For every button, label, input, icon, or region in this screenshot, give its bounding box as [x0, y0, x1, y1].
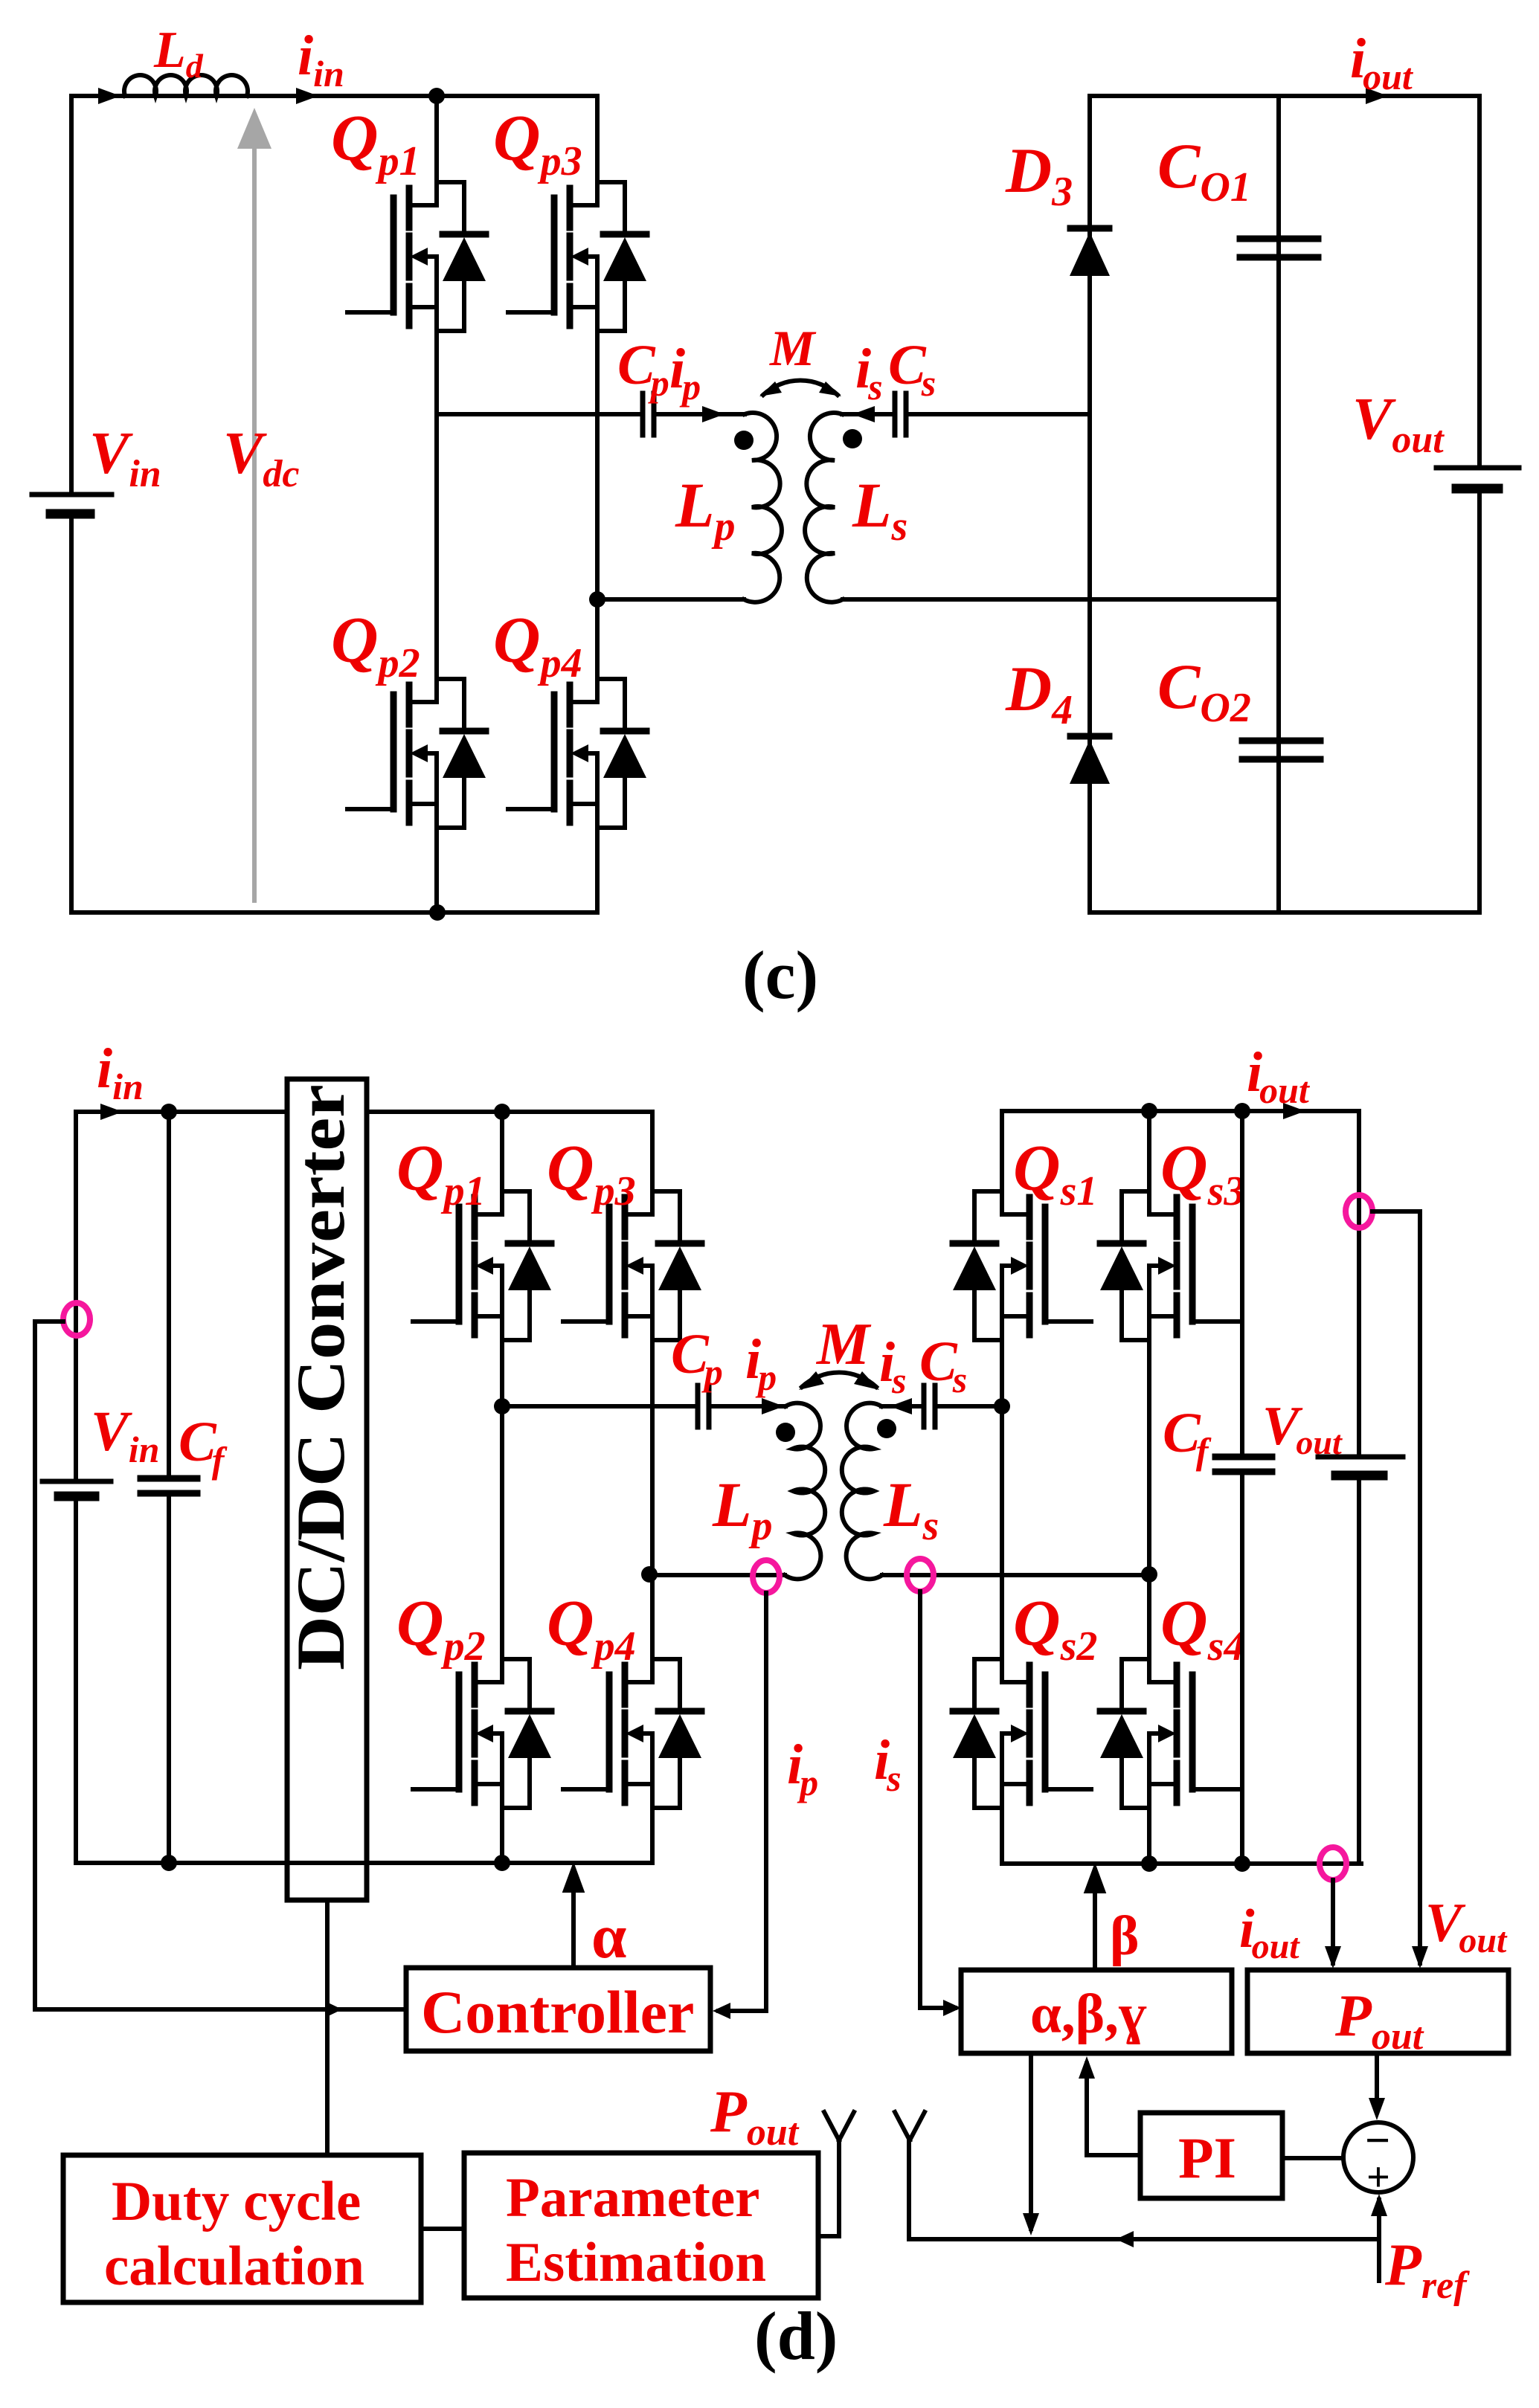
wire: Qp2 drain from node A [434, 414, 439, 679]
svg-text:iout: iout [1239, 1899, 1300, 1966]
battery Vout [1318, 1457, 1403, 1475]
svg-text:is: is [855, 338, 883, 408]
svg-text:Vout: Vout [1425, 1893, 1508, 1960]
wire: Vout sense tap right then down [1372, 1211, 1420, 1963]
arrowhead right of M arc [819, 382, 841, 396]
svg-text:is: is [879, 1331, 907, 1401]
wire: Qp3 source down to node B [650, 1340, 655, 1574]
battery Vin [32, 495, 112, 514]
wire: top rail from Vin to bridge [71, 94, 597, 98]
arrow: i_in on top rail [296, 88, 318, 104]
arrow: into summing junction top [1369, 2098, 1385, 2120]
arrow: leftward on Pref line [1116, 2231, 1134, 2247]
wire: ip sense down from probe [719, 1593, 766, 2011]
wire: Cf leg lower [167, 1493, 171, 1863]
svg-text:Ld: Ld [153, 22, 204, 85]
transistor Qp3 [508, 182, 646, 331]
node: junction dot Qp3/Qp4 [589, 591, 605, 608]
arrowhead left of M arc [799, 1371, 824, 1390]
node: dot Qs3/Qs4 mid [1141, 1566, 1157, 1583]
arrow: i_out on secondary top rail [1283, 1103, 1305, 1119]
svg-text:calculation: calculation [104, 2235, 364, 2297]
wire: abg block down to feedback line [1029, 2053, 1033, 2229]
svg-text:ip: ip [787, 1733, 818, 1803]
svg-text:Qs3: Qs3 [1160, 1133, 1244, 1214]
svg-text:α,β,ɣ: α,β,ɣ [1030, 1983, 1147, 2045]
wire: Qp3 drain from rail corner [650, 1112, 655, 1191]
wire: secondary top rail [1002, 1109, 1359, 1113]
svg-text:(c): (c) [742, 937, 818, 1013]
svg-text:Cs: Cs [888, 334, 936, 404]
arrow: beta gate signal up to bridge [1087, 1869, 1103, 1970]
svg-text:M: M [769, 320, 817, 376]
wire: Ls bottom to Qs3/Qs4 node [882, 1573, 1149, 1577]
wire: Lp bottom to Qp3/Qp4 node [597, 597, 744, 602]
arrow: i_p into coil [762, 1398, 784, 1414]
wire: Qs3/Qs4 node to Qs4 [1147, 1574, 1151, 1659]
svg-text:CO1: CO1 [1157, 130, 1251, 210]
svg-text:is: is [874, 1729, 902, 1799]
svg-text:Pout: Pout [710, 2079, 800, 2154]
arrow: PI output into abg [1079, 2056, 1095, 2079]
capacitor Cp [698, 1385, 709, 1427]
svg-text:Duty cycle: Duty cycle [112, 2171, 361, 2232]
svg-text:Controller: Controller [421, 1978, 694, 2046]
wire: secondary bottom rail [1002, 1861, 1361, 1866]
PI block [1140, 2113, 1282, 2198]
transistor Qs2 [953, 1659, 1091, 1808]
svg-text:ip: ip [745, 1328, 777, 1398]
svg-text:Qp1: Qp1 [396, 1133, 486, 1214]
wire: Qs4 source to bottom rail [1147, 1808, 1151, 1864]
transistor Qs1 [953, 1191, 1091, 1340]
arrow: iout sense into Pout [1325, 1946, 1341, 1968]
svg-text:(d): (d) [754, 2298, 838, 2374]
wire: primary bottom rail [76, 1861, 652, 1865]
wire: left vertical to Vin battery [74, 1112, 78, 1481]
node: dot Cf2 top [1234, 1103, 1250, 1119]
node: dot top of Qp1 leg [494, 1104, 510, 1120]
svg-text:Vin: Vin [91, 1400, 159, 1470]
capacitor CO2 [1242, 741, 1320, 759]
wire: DC/DC to duty cycle box [325, 1900, 330, 2155]
wire: below Vout battery to bottom rail [1357, 1475, 1361, 1864]
svg-text:D3: D3 [1005, 135, 1073, 215]
inductor Ls coil [805, 413, 843, 602]
wire: Qp1 drain [500, 1112, 504, 1191]
svg-text:Cs: Cs [919, 1330, 967, 1400]
polarity dot Lp [776, 1423, 795, 1442]
wire: right edge top to Vout battery [1357, 1111, 1361, 1457]
node: dot Qp3/Qp4 mid [641, 1566, 658, 1583]
wire: Qp2 source to bottom rail [500, 1808, 504, 1863]
arrow: current into Ld [98, 88, 121, 104]
arrow: Vout sense into Pout [1412, 1946, 1428, 1968]
wire: Pout to summing junction [1375, 2053, 1379, 2112]
arrow: is sense into abg block [943, 2000, 961, 2016]
polarity dot Lp [734, 431, 754, 450]
wire: Qs3 drain [1147, 1111, 1151, 1191]
capacitor Cs [924, 1385, 935, 1427]
wire: iout sense down from probe [1331, 1880, 1335, 1963]
wire: PI output to abg block [1087, 2064, 1140, 2155]
wire: Ls bottom to CO1/CO2 node [843, 597, 1279, 602]
parameter estimation block [464, 2153, 818, 2298]
svg-text:α: α [591, 1902, 626, 1971]
wire: Qp3 drain from top rail corner [595, 96, 600, 182]
svg-text:Qp4: Qp4 [493, 605, 582, 686]
svg-text:iout: iout [1350, 28, 1414, 97]
wire: Qs1 source to mid node [1000, 1340, 1004, 1406]
svg-text:PI: PI [1178, 2125, 1236, 2190]
transistor Qs4 [1100, 1659, 1238, 1808]
wire: Cp to Lp coil [654, 412, 745, 416]
transistor Qp2 [347, 679, 486, 828]
summing junction circle [1343, 2122, 1413, 2192]
polarity dot Ls [877, 1419, 896, 1438]
svg-text:Ls: Ls [852, 469, 907, 550]
svg-text:Vout: Vout [1352, 387, 1445, 461]
probe circle on output voltage leg [1346, 1195, 1372, 1228]
wire: right edge from top rail to Vout battery [1477, 96, 1482, 468]
transistor Qs3 [1100, 1191, 1238, 1340]
node: dot Qs3 top [1141, 1103, 1157, 1119]
wire: D3/D4 leg vertical [1087, 96, 1092, 912]
wire: primary top rail [76, 1110, 652, 1114]
wire: Cf leg upper [167, 1112, 171, 1478]
wire: Qp1 source to node A [500, 1340, 504, 1406]
wire: CO leg vertical [1276, 96, 1281, 912]
wire: bottom rail right section [1090, 910, 1479, 915]
wire: below Vout battery to bottom rail [1477, 489, 1482, 912]
inductor Lp coil [785, 1403, 825, 1580]
svg-text:Qp3: Qp3 [547, 1133, 636, 1214]
wire: PI to summing junction [1282, 2156, 1343, 2160]
transistor Qp1 [347, 182, 486, 331]
arrow: i_p into coil [702, 406, 724, 422]
node: dot Qs1/Qs2 mid [994, 1398, 1010, 1414]
capacitor Cs [895, 393, 906, 435]
wire: Qp1 drain from top rail [434, 96, 439, 182]
svg-text:iout: iout [1247, 1041, 1311, 1111]
svg-text:D4: D4 [1005, 653, 1073, 733]
svg-text:Qs2: Qs2 [1013, 1588, 1097, 1670]
wire: duty cycle to parameter estimation [421, 2227, 464, 2231]
wire: Qs2 source to bottom rail [1000, 1808, 1004, 1864]
wire: Ls top to Cs [842, 412, 893, 416]
arrow: abg down onto feedback line [1023, 2213, 1039, 2235]
capacitor Cf secondary [1215, 1457, 1272, 1472]
node: dot Cf top [161, 1104, 177, 1120]
battery Vout [1436, 468, 1519, 489]
battery Vin [42, 1481, 111, 1496]
node: dot Qp2 bottom [494, 1855, 510, 1871]
arrow: i_s into Ls coil [852, 406, 875, 422]
node: dot Qs4 bottom [1141, 1855, 1157, 1872]
svg-text:Qs4: Qs4 [1160, 1588, 1244, 1670]
wire: Cs to Qs1/Qs2 node [935, 1404, 1002, 1409]
DC/DC converter block [287, 1079, 367, 1900]
transistor Qp2 [413, 1659, 551, 1808]
wire: Qs1/Qs2 leg through to Qs2 [1000, 1406, 1004, 1659]
wire: Qp2 source to bottom rail [434, 828, 439, 912]
svg-text:Ls: Ls [883, 1469, 939, 1549]
svg-text:DC/DC Converter: DC/DC Converter [283, 1084, 359, 1670]
wire: node B to Qp4 [650, 1574, 655, 1659]
polarity dot Ls [843, 429, 862, 448]
svg-text:Vout: Vout [1262, 1396, 1343, 1461]
svg-text:Lp: Lp [675, 469, 736, 550]
wire: Qp3 source to node B [595, 331, 600, 599]
wire: Cp to Lp coil [709, 1404, 785, 1409]
arrow: gray Vdc sense arrow [237, 108, 272, 901]
wire: Vin sense tap to left [35, 1321, 63, 2009]
wire: Ls top to Cs [881, 1404, 922, 1409]
wire: below battery to bottom rail [74, 1496, 78, 1863]
svg-text:Lp: Lp [712, 1469, 773, 1549]
wire: Qs1 drain [1000, 1111, 1004, 1191]
transistor Qp4 [508, 679, 646, 828]
mutual coupling arc M [802, 1373, 876, 1387]
wire: Cf2 leg lower [1240, 1472, 1244, 1864]
svg-text:Cp: Cp [671, 1323, 723, 1393]
diode D3 [1070, 228, 1110, 276]
wire: Qp4 source to bottom rail [595, 828, 600, 912]
wire: Qp2 drain from node A [500, 1406, 504, 1659]
svg-text:Cf: Cf [1163, 1402, 1212, 1472]
Pout block [1247, 1970, 1509, 2053]
wire: node A to Cp [502, 1404, 696, 1409]
arrow: i_out on top rail [1366, 88, 1388, 104]
wire: node A horizontal to Cp [437, 412, 641, 416]
transistor Qp1 [413, 1191, 551, 1340]
arrow: i_in on primary top rail [100, 1104, 123, 1120]
wire: Pref up into summing junction [1377, 2200, 1381, 2281]
probe circle on output rail [1320, 1847, 1346, 1880]
antenna right [895, 2112, 925, 2140]
wire: Qs3 source to mid node [1147, 1340, 1151, 1574]
arrow: i_s into Ls [890, 1398, 912, 1414]
capacitor Cf primary [141, 1478, 197, 1493]
svg-text:Qp1: Qp1 [331, 103, 420, 184]
arrowhead right of M arc [854, 1371, 879, 1390]
svg-text:Cp: Cp [617, 334, 669, 404]
svg-text:Qp4: Qp4 [547, 1588, 636, 1670]
node: junction dot bottom of Qp2 leg [429, 904, 446, 921]
svg-text:Estimation: Estimation [506, 2232, 766, 2293]
wire: Vin sense to controller [35, 2007, 406, 2012]
svg-text:+: + [1366, 2154, 1390, 2201]
arrow: Pref into summing junction [1371, 2194, 1387, 2216]
probe circle on Lp lead [753, 1560, 780, 1593]
capacitor CO1 [1240, 239, 1318, 257]
svg-text:Vdc: Vdc [223, 421, 299, 495]
svg-text:Qs1: Qs1 [1013, 1133, 1097, 1214]
arrow: alpha gate signal up to bridge [565, 1868, 582, 1968]
node: dot Cf bottom [161, 1855, 177, 1871]
svg-text:iin: iin [97, 1037, 144, 1107]
svg-text:Cf: Cf [179, 1411, 228, 1481]
wire: Pref feedback line to antenna [909, 2141, 1378, 2239]
probe circle on Ls lead [907, 1559, 934, 1591]
wire: top rail right section [1090, 94, 1479, 98]
controller block [406, 1968, 710, 2051]
svg-text:Qp2: Qp2 [331, 605, 420, 686]
wire: node B to Qp4 drain [595, 599, 600, 679]
antenna left [820, 2112, 854, 2236]
svg-text:Vin: Vin [89, 421, 161, 495]
svg-text:Qp2: Qp2 [396, 1588, 486, 1670]
wire: below Vin battery to bottom rail [69, 514, 74, 912]
capacitor Cp [643, 393, 654, 435]
svg-text:ip: ip [669, 338, 701, 408]
arrowhead left of M arc [759, 382, 782, 396]
inductor Lp coil [744, 413, 782, 602]
wire: Cs to rectifier mid node [906, 412, 1090, 416]
abg block [961, 1970, 1232, 2053]
mutual coupling arc M [763, 381, 838, 395]
inductor Ld [124, 75, 248, 96]
wire: Cf2 leg upper [1240, 1111, 1244, 1457]
wire: Qp1 source down to node A [434, 331, 439, 414]
svg-text:M: M [815, 1312, 872, 1377]
duty cycle block [63, 2155, 421, 2302]
node: dot node A [494, 1398, 510, 1414]
transistor Qp4 [563, 1659, 701, 1808]
node: junction dot top of Qp1 leg [428, 88, 445, 104]
diode D4 [1070, 736, 1110, 784]
node: dot Cf2 bottom [1234, 1855, 1250, 1872]
wire: Qp4 source to bottom rail corner [650, 1808, 655, 1863]
arrow: ip sense into controller [713, 2003, 730, 2019]
probe circle on Vin leg [63, 1303, 90, 1336]
svg-text:iin: iin [298, 25, 344, 94]
inductor Ls coil [842, 1403, 882, 1580]
svg-text:β: β [1110, 1905, 1140, 1967]
svg-text:Parameter: Parameter [506, 2167, 759, 2229]
wire: is sense down from probe [920, 1591, 955, 2008]
arrow: junction arrow on Vin sense [325, 2001, 342, 2018]
svg-text:Pref: Pref [1384, 2232, 1470, 2307]
wire: Lp bottom to Qp3/Qp4 node [649, 1573, 785, 1577]
svg-text:CO2: CO2 [1157, 651, 1251, 731]
wire: bottom rail left section [71, 910, 597, 915]
wire: left vertical from top rail to Vin battery [69, 96, 74, 495]
svg-text:Qp3: Qp3 [493, 103, 582, 184]
transistor Qp3 [563, 1191, 701, 1340]
